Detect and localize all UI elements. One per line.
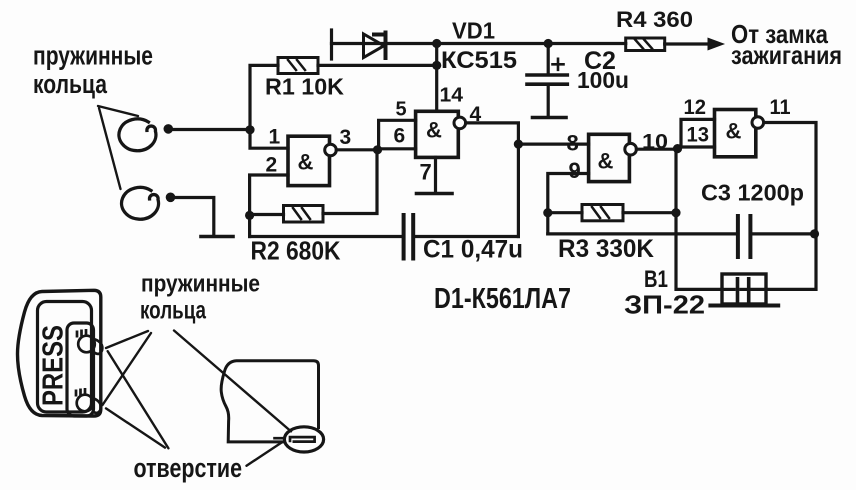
leader line ring bottom to otverstie	[106, 408, 165, 447]
wire gate1 output to junction	[336, 148, 377, 151]
wire pin 11 down to B1 right	[764, 123, 816, 290]
node junction top (VD1/rail)	[432, 39, 441, 48]
svg-text:кольца: кольца	[33, 69, 108, 99]
svg-text:кольца: кольца	[140, 297, 207, 325]
wire R3 right	[623, 211, 676, 214]
ground pin 7	[417, 192, 453, 196]
op gate U1.2 (&)	[416, 111, 466, 157]
lighter contact panel	[67, 323, 94, 416]
lighter ring contact top	[77, 329, 102, 354]
diode VD1 (zener KC515)	[364, 33, 386, 59]
svg-text:2: 2	[266, 154, 278, 177]
wire R2 right to gate1 output	[323, 150, 377, 214]
wire ring2 to ground	[172, 198, 214, 236]
svg-text:&: &	[726, 119, 742, 144]
leader line koltsa1 to ring1	[98, 106, 138, 116]
node junction C3 right	[810, 229, 819, 238]
svg-text:3: 3	[340, 126, 352, 149]
svg-text:7: 7	[420, 160, 432, 185]
node junction R3 left	[543, 208, 552, 217]
wire C1 left (bottom rail)	[250, 235, 402, 238]
svg-text:1: 1	[269, 126, 281, 149]
svg-text:пружинные: пружинные	[33, 41, 153, 71]
resistor R1	[278, 58, 318, 74]
node junction R2 left	[245, 211, 254, 220]
svg-text:R3 330K: R3 330K	[558, 235, 654, 263]
slot opening	[273, 437, 314, 442]
op gate U1.4 (&)	[715, 110, 764, 157]
node junction pin3/5/6	[373, 145, 382, 154]
svg-text:отверстие: отверстие	[134, 453, 243, 483]
svg-text:14: 14	[440, 85, 464, 107]
wire junction down to C1	[517, 144, 520, 236]
svg-text:6: 6	[394, 125, 406, 148]
wire top rail (node to R4)	[437, 42, 626, 45]
svg-text:C3 1200p: C3 1200p	[701, 180, 804, 206]
wire R1 right	[318, 64, 437, 67]
wire C3 right	[753, 232, 815, 235]
svg-text:C1 0,47u: C1 0,47u	[423, 236, 523, 264]
capacitor C1	[404, 215, 414, 259]
wire pin 4 to pin 8	[466, 123, 589, 144]
wire pins 5-6 loop	[378, 120, 416, 149]
wire pin 7	[434, 157, 437, 192]
svg-text:100u: 100u	[577, 67, 629, 93]
wire node to pin 14	[435, 44, 438, 112]
resistor R2	[284, 206, 324, 223]
wire R3 left stub	[548, 211, 582, 214]
lighter inner panel	[38, 302, 92, 413]
wire junction down to B1 left	[676, 149, 722, 290]
leader line koltsa2 to lighter ring bottom	[103, 333, 152, 405]
op gate U1.3 (&)	[589, 134, 637, 181]
node junction C1 right	[514, 140, 523, 149]
wire C2 top	[547, 44, 550, 74]
svg-text:5: 5	[396, 99, 407, 121]
svg-text:R2 680K: R2 680K	[251, 236, 341, 266]
svg-text:11: 11	[770, 96, 791, 119]
diode VD1 anode terminal bar	[330, 30, 333, 59]
svg-text:ЗП-22: ЗП-22	[624, 290, 705, 320]
spring ring contact 2	[122, 187, 176, 219]
svg-text:8: 8	[567, 131, 579, 156]
slot ellipse	[284, 427, 323, 452]
ground C2	[533, 116, 567, 120]
wire top rail left (diode branch to node)	[332, 42, 437, 45]
wire R1 left to input node	[250, 65, 288, 148]
svg-text:4: 4	[470, 103, 482, 126]
node junction ring1/input	[245, 125, 254, 134]
node junction (R1/pin14)	[432, 61, 441, 70]
wire pin 9	[548, 174, 589, 234]
svg-text:12: 12	[684, 96, 707, 119]
op gate U1.1 (&)	[288, 136, 336, 185]
lighter ring contact bottom	[76, 388, 101, 413]
spring ring contact 1	[119, 119, 173, 151]
piezo B1 ZP-22	[710, 274, 778, 306]
svg-text:9: 9	[569, 158, 581, 183]
ground ring2	[201, 235, 233, 239]
wire pins 12-13 loop	[678, 119, 715, 147]
leader line koltsa2 to slot ellipse	[174, 331, 291, 432]
svg-text:КС515: КС515	[441, 47, 517, 74]
svg-text:PRESS: PRESS	[38, 325, 70, 406]
arrow to ignition	[708, 38, 724, 50]
node junction C2 top	[544, 39, 553, 48]
wire pin 2	[250, 175, 288, 237]
lighter body fragment	[221, 361, 318, 442]
svg-text:10: 10	[642, 131, 668, 154]
svg-text:&: &	[598, 149, 614, 174]
resistor R3	[582, 205, 623, 221]
leader line koltsa1 to ring2	[99, 108, 121, 189]
svg-text:&: &	[298, 150, 314, 175]
svg-text:R1 10K: R1 10K	[265, 74, 344, 100]
svg-text:R4 360: R4 360	[616, 7, 693, 32]
leader line koltsa2 to lighter ring top	[106, 331, 148, 348]
resistor R4	[626, 38, 665, 51]
wire C1 right	[415, 235, 518, 238]
node junction R3 right	[671, 208, 680, 217]
svg-text:D1-К561ЛА7: D1-К561ЛА7	[434, 283, 571, 315]
svg-text:13: 13	[687, 124, 710, 147]
node junction pin10/12/13	[673, 144, 682, 153]
svg-text:зажигания: зажигания	[731, 40, 842, 70]
wire R4 to arrow	[665, 42, 711, 45]
lighter body outline	[18, 290, 101, 416]
capacitor C3	[738, 216, 751, 257]
leader line ring top to otverstie	[108, 351, 169, 448]
wire R2 left stub	[250, 213, 284, 216]
capacitor C2 polarized	[527, 59, 567, 84]
leader line otverstie to ellipse	[247, 442, 283, 465]
wire ring1 to node	[170, 128, 250, 131]
wire gate3 output to junction	[636, 148, 677, 151]
wire C2 bottom	[547, 84, 550, 116]
svg-text:VD1: VD1	[452, 18, 495, 44]
svg-text:пружинные: пружинные	[141, 271, 260, 298]
svg-text:&: &	[426, 118, 442, 143]
wire pin9 net to C3	[548, 232, 736, 235]
